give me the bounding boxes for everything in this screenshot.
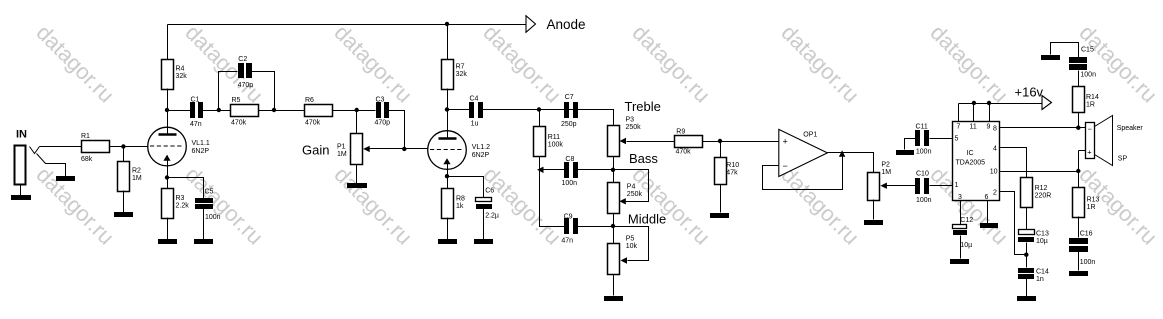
svg-text:VL1.1: VL1.1 — [192, 140, 210, 147]
svg-text:470p: 470p — [375, 119, 391, 126]
svg-text:47k: 47k — [726, 170, 738, 177]
svg-text:100n: 100n — [916, 197, 932, 204]
svg-text:−: − — [1088, 125, 1093, 134]
svg-text:11: 11 — [970, 123, 977, 130]
svg-text:9: 9 — [987, 123, 991, 130]
svg-text:100n: 100n — [205, 214, 221, 221]
svg-text:100n: 100n — [562, 180, 578, 187]
svg-text:P5: P5 — [626, 236, 635, 243]
svg-text:Anode: Anode — [547, 17, 586, 32]
svg-text:1k: 1k — [456, 203, 464, 210]
svg-text:R12: R12 — [1035, 185, 1048, 192]
svg-text:1n: 1n — [1036, 276, 1044, 283]
svg-text:47n: 47n — [561, 237, 573, 244]
svg-text:R5: R5 — [232, 97, 241, 104]
svg-text:C16: C16 — [1080, 231, 1093, 238]
svg-text:C13: C13 — [1036, 231, 1049, 238]
svg-text:P4: P4 — [627, 183, 636, 190]
svg-text:Speaker: Speaker — [1117, 125, 1144, 132]
svg-text:250k: 250k — [627, 191, 643, 198]
svg-text:R9: R9 — [676, 128, 685, 135]
svg-text:C10: C10 — [916, 171, 929, 178]
svg-text:R7: R7 — [456, 64, 465, 71]
svg-text:4: 4 — [993, 146, 997, 153]
svg-text:C9: C9 — [564, 213, 573, 220]
svg-text:1u: 1u — [471, 121, 479, 128]
svg-text:+16v: +16v — [1015, 84, 1044, 99]
svg-text:2.2µ: 2.2µ — [485, 213, 499, 220]
svg-text:TDA2005: TDA2005 — [956, 159, 986, 166]
svg-text:C14: C14 — [1036, 269, 1049, 276]
svg-text:470k: 470k — [231, 119, 247, 126]
svg-text:+: + — [783, 136, 788, 146]
svg-text:R13: R13 — [1087, 196, 1100, 203]
svg-text:1R: 1R — [1086, 101, 1095, 108]
svg-text:C1: C1 — [191, 96, 200, 103]
svg-text:C2: C2 — [238, 56, 247, 63]
svg-text:10µ: 10µ — [1036, 238, 1048, 245]
svg-text:R10: R10 — [726, 162, 739, 169]
svg-text:7: 7 — [957, 123, 961, 130]
svg-text:R1: R1 — [81, 133, 90, 140]
svg-text:Middle: Middle — [628, 211, 666, 226]
svg-text:C3: C3 — [376, 96, 385, 103]
svg-text:5: 5 — [955, 135, 959, 142]
svg-text:8: 8 — [993, 125, 997, 132]
svg-text:470k: 470k — [305, 119, 321, 126]
svg-text:C11: C11 — [916, 123, 928, 130]
svg-text:470p: 470p — [238, 82, 254, 89]
svg-text:−: − — [783, 161, 788, 171]
svg-text:R11: R11 — [548, 134, 560, 141]
svg-text:Gain: Gain — [302, 143, 329, 158]
svg-text:Bass: Bass — [629, 151, 658, 166]
svg-text:1M: 1M — [132, 175, 142, 182]
svg-text:OP1: OP1 — [803, 131, 817, 138]
svg-text:C15: C15 — [1081, 47, 1094, 54]
svg-text:IC: IC — [967, 150, 974, 157]
svg-text:P3: P3 — [626, 116, 635, 123]
svg-text:R14: R14 — [1086, 94, 1099, 101]
svg-text:68k: 68k — [81, 156, 93, 163]
svg-text:SP: SP — [1118, 156, 1128, 163]
svg-text:VL1.2: VL1.2 — [472, 144, 490, 151]
svg-text:1M: 1M — [337, 151, 347, 158]
svg-text:+: + — [1087, 148, 1092, 157]
svg-text:2.2k: 2.2k — [176, 203, 190, 210]
svg-text:C7: C7 — [565, 94, 574, 101]
svg-text:250k: 250k — [626, 124, 642, 131]
svg-text:P2: P2 — [881, 162, 890, 169]
svg-text:47n: 47n — [190, 121, 202, 128]
svg-text:100k: 100k — [548, 141, 564, 148]
svg-text:P1: P1 — [337, 144, 346, 151]
svg-text:R2: R2 — [132, 167, 141, 174]
svg-text:1R: 1R — [1087, 204, 1096, 211]
svg-text:R6: R6 — [305, 97, 314, 104]
svg-text:C5: C5 — [205, 189, 214, 196]
svg-text:C6: C6 — [485, 188, 494, 195]
svg-text:C8: C8 — [565, 156, 574, 163]
svg-text:IN: IN — [16, 128, 27, 140]
svg-text:250p: 250p — [561, 121, 577, 128]
svg-text:R4: R4 — [176, 66, 185, 73]
svg-text:R8: R8 — [456, 196, 465, 203]
svg-text:100n: 100n — [1080, 71, 1096, 78]
svg-text:10µ: 10µ — [960, 242, 972, 249]
svg-text:6N2P: 6N2P — [472, 152, 490, 159]
svg-text:10: 10 — [990, 169, 998, 176]
svg-text:2: 2 — [993, 189, 997, 196]
svg-text:C4: C4 — [470, 95, 479, 102]
svg-text:1: 1 — [955, 182, 959, 189]
svg-text:6N2P: 6N2P — [192, 148, 210, 155]
svg-text:1M: 1M — [881, 169, 891, 176]
svg-text:470k: 470k — [676, 149, 692, 156]
svg-text:6: 6 — [985, 194, 989, 201]
svg-text:220R: 220R — [1035, 193, 1052, 200]
svg-text:R3: R3 — [176, 195, 185, 202]
svg-text:100n: 100n — [1080, 259, 1096, 266]
svg-text:32k: 32k — [176, 73, 188, 80]
svg-text:C12: C12 — [960, 217, 973, 224]
svg-text:3: 3 — [958, 194, 962, 201]
svg-text:100n: 100n — [916, 149, 932, 156]
svg-text:Treble: Treble — [625, 99, 661, 114]
svg-text:10k: 10k — [626, 243, 638, 250]
svg-text:32k: 32k — [456, 71, 468, 78]
